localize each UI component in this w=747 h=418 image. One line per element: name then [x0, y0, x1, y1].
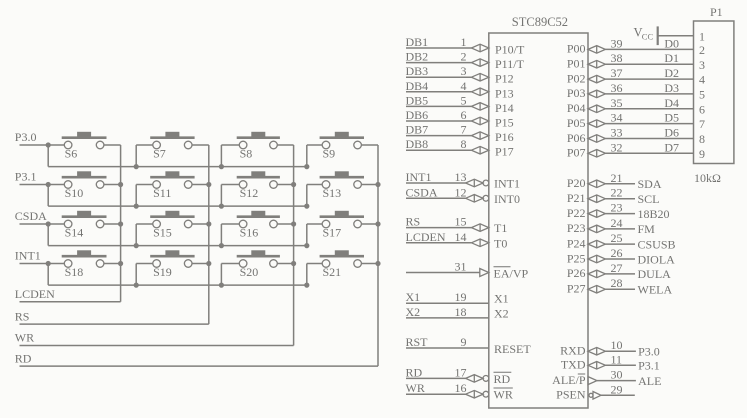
svg-text:3: 3	[699, 58, 705, 72]
svg-text:DB3: DB3	[406, 64, 429, 78]
svg-text:DULA: DULA	[638, 267, 672, 281]
svg-text:D1: D1	[664, 51, 679, 65]
IC pin 33 (P06) to D6	[567, 126, 694, 145]
wire row CSDA drop to bus	[47, 224, 49, 246]
svg-text:4: 4	[699, 73, 705, 87]
wire S14 to column	[104, 223, 121, 225]
junction column 4 row 2	[375, 182, 380, 187]
svg-text:X2: X2	[494, 306, 509, 320]
junction column 3 row 3	[291, 221, 296, 226]
svg-text:WR: WR	[15, 331, 34, 345]
svg-text:RESET: RESET	[494, 342, 531, 356]
IC pin 37 (P02) to D2	[567, 66, 694, 85]
svg-text:21: 21	[611, 171, 623, 185]
svg-text:CSDA: CSDA	[15, 209, 47, 223]
junction bus riser S19	[134, 283, 139, 288]
svg-text:LCDEN: LCDEN	[406, 230, 446, 244]
svg-text:T0: T0	[494, 236, 507, 250]
svg-text:6: 6	[699, 102, 705, 116]
svg-text:P15: P15	[495, 116, 514, 130]
IC pin 18 (X2) left	[406, 305, 509, 321]
wire row P3.1 lead-in	[20, 184, 65, 186]
node P3.0 row label	[15, 130, 37, 144]
IC pin 16 (WR) left	[406, 381, 513, 401]
svg-text:RXD: RXD	[560, 344, 586, 358]
wire S20 to column	[277, 263, 293, 265]
wire column 3 vertical	[293, 145, 295, 346]
wire S7 to column	[192, 144, 209, 146]
svg-text:P03: P03	[567, 86, 586, 100]
svg-text:INT0: INT0	[494, 192, 520, 206]
svg-text:31: 31	[455, 260, 467, 274]
svg-text:P20: P20	[567, 176, 586, 190]
svg-text:DB1: DB1	[406, 35, 429, 49]
svg-text:P16: P16	[495, 130, 514, 144]
wire riser to S8	[221, 145, 239, 167]
wire row CSDA lead-in	[20, 223, 65, 225]
junction bus riser S8	[219, 164, 224, 169]
IC pin 30 (ALE/P) net ALE	[552, 368, 661, 388]
svg-text:LCDEN: LCDEN	[15, 287, 55, 301]
wire row P3.1 bus	[48, 205, 307, 207]
svg-text:P21: P21	[567, 191, 586, 205]
svg-text:11: 11	[611, 352, 623, 366]
wire S16 to column	[277, 223, 293, 225]
svg-text:P05: P05	[567, 116, 586, 130]
IC pin 24 (P23) net FM	[567, 216, 655, 236]
wire row P3.0 drop to bus	[47, 145, 49, 167]
junction column 1 row 2	[118, 182, 123, 187]
node P3.1 row label	[15, 170, 37, 184]
wire riser to S12	[221, 185, 239, 207]
switch S17	[320, 211, 364, 240]
svg-text:10: 10	[611, 338, 623, 352]
svg-text:S10: S10	[65, 186, 84, 200]
IC pin 25 (P24) net CSUSB	[567, 231, 676, 251]
svg-text:RD: RD	[406, 365, 423, 379]
junction column 3 row 2	[291, 182, 296, 187]
wire RD net	[20, 365, 379, 367]
junction bus riser S7	[134, 164, 139, 169]
svg-text:STC89C52: STC89C52	[512, 15, 568, 29]
wire RS net	[20, 323, 209, 325]
wire riser to S13	[307, 185, 322, 207]
svg-text:S7: S7	[153, 146, 166, 160]
svg-text:P26: P26	[567, 266, 586, 280]
junction bus riser S13	[304, 204, 309, 209]
IC pin 5 (P14) left	[406, 93, 514, 115]
svg-text:18B20: 18B20	[638, 207, 670, 221]
IC pin 34 (P05) to D5	[567, 111, 694, 130]
svg-text:3: 3	[461, 64, 467, 78]
svg-text:16: 16	[455, 381, 467, 395]
wire row INT1 bus	[48, 284, 307, 286]
svg-text:RS: RS	[15, 309, 30, 323]
svg-text:WR: WR	[406, 381, 425, 395]
svg-text:29: 29	[611, 382, 623, 396]
svg-text:P3.1: P3.1	[15, 170, 37, 184]
svg-text:6: 6	[461, 108, 467, 122]
wire S11 to column	[192, 184, 209, 186]
svg-text:34: 34	[611, 111, 623, 125]
svg-text:8: 8	[699, 132, 705, 146]
svg-text:CSDA: CSDA	[406, 185, 438, 199]
svg-text:S12: S12	[240, 186, 259, 200]
svg-text:RD: RD	[494, 372, 511, 386]
svg-text:ALE: ALE	[638, 374, 661, 388]
svg-text:P04: P04	[567, 101, 586, 115]
wire S19 to column	[192, 263, 209, 265]
node WR label	[15, 331, 34, 345]
switch S13	[320, 171, 364, 200]
wire S13 to column	[361, 184, 378, 186]
IC pin 6 (P15) left	[406, 108, 514, 130]
wire row INT1 drop to bus	[47, 264, 49, 286]
switch S21	[320, 250, 364, 278]
svg-text:36: 36	[611, 81, 623, 95]
switch S19	[150, 250, 194, 278]
svg-text:P06: P06	[567, 131, 586, 145]
svg-text:P10/T: P10/T	[495, 43, 525, 57]
svg-text:DB5: DB5	[406, 93, 429, 107]
junction row INT1 left	[46, 261, 51, 266]
svg-text:18: 18	[455, 305, 467, 319]
wire S12 to column	[277, 184, 293, 186]
junction bus riser S21	[304, 283, 309, 288]
node RS label	[15, 309, 30, 323]
svg-text:35: 35	[611, 96, 623, 110]
power VCC	[634, 26, 694, 46]
svg-text:27: 27	[611, 261, 623, 275]
svg-text:RD: RD	[15, 351, 32, 365]
IC pin 11 (TXD) net P3.1	[561, 352, 660, 372]
svg-text:S15: S15	[153, 225, 172, 239]
svg-text:13: 13	[455, 170, 467, 184]
svg-text:D3: D3	[664, 81, 679, 95]
wire riser to S19	[136, 264, 153, 286]
svg-text:S13: S13	[323, 186, 342, 200]
svg-text:7: 7	[699, 117, 705, 131]
wire S18 to column	[104, 263, 121, 265]
svg-text:37: 37	[611, 66, 623, 80]
svg-text:S6: S6	[65, 146, 78, 160]
wire riser to S7	[136, 145, 153, 167]
svg-text:FM: FM	[638, 222, 656, 236]
junction column 4 row 4	[375, 261, 380, 266]
wire WR net	[20, 345, 294, 347]
svg-text:D0: D0	[664, 36, 679, 50]
svg-text:D4: D4	[664, 96, 679, 110]
IC pin 21 (P20) net SDA	[567, 171, 662, 191]
svg-text:P25: P25	[567, 251, 586, 265]
svg-text:P14: P14	[495, 101, 514, 115]
svg-text:DB4: DB4	[406, 79, 429, 93]
svg-text:S11: S11	[153, 186, 171, 200]
junction column 2 row 4	[206, 261, 211, 266]
wire row P3.0 bus	[48, 166, 307, 168]
wire riser to S21	[307, 264, 322, 286]
junction column 2 row 2	[206, 182, 211, 187]
switch S12	[237, 171, 280, 200]
wire S9 to column	[361, 144, 378, 146]
svg-text:23: 23	[611, 201, 623, 215]
svg-text:S20: S20	[240, 265, 259, 279]
wire S17 to column	[361, 223, 378, 225]
svg-text:X1: X1	[494, 292, 509, 306]
junction row P3.0 left	[46, 142, 51, 147]
IC pin 13 (INT1) left	[406, 170, 521, 191]
wire column 4 vertical	[377, 145, 379, 366]
svg-text:33: 33	[611, 126, 623, 140]
wire row INT1 lead-in	[20, 263, 65, 265]
svg-text:DB2: DB2	[406, 50, 429, 64]
IC pin 36 (P03) to D3	[567, 81, 694, 100]
IC pin 26 (P25) net DIOLA	[567, 246, 675, 266]
svg-text:24: 24	[611, 216, 623, 230]
junction bus riser S16	[219, 243, 224, 248]
svg-text:D2: D2	[664, 66, 679, 80]
svg-text:DB6: DB6	[406, 108, 429, 122]
switch S18	[62, 250, 107, 278]
junction bus riser S11	[134, 204, 139, 209]
svg-text:14: 14	[455, 230, 467, 244]
svg-text:P01: P01	[567, 57, 586, 71]
IC pin 17 (RD) left	[406, 365, 512, 385]
wire row P3.1 drop to bus	[47, 185, 49, 207]
svg-text:9: 9	[699, 147, 705, 161]
svg-text:P11/T: P11/T	[495, 57, 525, 71]
svg-text:39: 39	[611, 36, 623, 50]
svg-text:S18: S18	[65, 265, 84, 279]
svg-text:1: 1	[699, 29, 705, 43]
junction bus riser S15	[134, 243, 139, 248]
svg-text:30: 30	[611, 368, 623, 382]
svg-text:32: 32	[611, 140, 623, 154]
svg-text:P24: P24	[567, 236, 586, 250]
svg-text:38: 38	[611, 51, 623, 65]
svg-text:P3.0: P3.0	[15, 130, 37, 144]
node LCDEN label	[15, 287, 55, 301]
svg-text:WELA: WELA	[638, 283, 673, 297]
resistor network P1 body	[694, 5, 734, 185]
junction column 1 row 4	[118, 261, 123, 266]
wire riser to S17	[307, 224, 322, 246]
node RD label	[15, 351, 32, 365]
IC pin 35 (P04) to D4	[567, 96, 694, 115]
wire S15 to column	[192, 223, 209, 225]
svg-text:12: 12	[455, 185, 467, 199]
svg-text:17: 17	[455, 365, 467, 379]
svg-text:WR: WR	[494, 388, 513, 402]
svg-text:S21: S21	[323, 265, 342, 279]
junction column 3 row 4	[291, 261, 296, 266]
svg-text:P23: P23	[567, 221, 586, 235]
IC pin 4 (P13) left	[406, 79, 514, 101]
P1 pin numbers	[699, 29, 705, 161]
svg-text:DB7: DB7	[406, 123, 429, 137]
IC pin 8 (P17) left	[406, 137, 514, 159]
svg-text:D6: D6	[664, 126, 679, 140]
IC U1 STC89C52 body	[489, 15, 588, 408]
svg-text:P17: P17	[495, 145, 514, 159]
junction bus riser S9	[304, 164, 309, 169]
svg-text:RS: RS	[406, 215, 421, 229]
switch S15	[150, 211, 194, 240]
svg-text:P27: P27	[567, 282, 586, 296]
svg-text:2: 2	[699, 43, 705, 57]
IC pin 10 (RXD) net P3.0	[560, 338, 660, 358]
IC pin 28 (P27) net WELA	[567, 276, 673, 296]
junction bus riser S12	[219, 204, 224, 209]
IC pin 19 (X1) left	[406, 290, 509, 306]
svg-text:P02: P02	[567, 71, 586, 85]
switch S7	[150, 132, 194, 161]
svg-text:SCL: SCL	[638, 192, 660, 206]
svg-text:P1: P1	[710, 5, 723, 19]
IC pin 22 (P21) net SCL	[567, 186, 660, 206]
junction row P3.1 left	[46, 182, 51, 187]
svg-text:X1: X1	[406, 290, 421, 304]
svg-text:P07: P07	[567, 146, 586, 160]
svg-text:D7: D7	[664, 140, 679, 154]
svg-text:D5: D5	[664, 111, 679, 125]
svg-text:S16: S16	[240, 225, 259, 239]
svg-text:P22: P22	[567, 206, 586, 220]
svg-text:DIOLA: DIOLA	[638, 252, 676, 266]
svg-text:ALE/P: ALE/P	[552, 373, 586, 387]
junction column 1 row 3	[118, 221, 123, 226]
svg-text:INT1: INT1	[15, 249, 41, 263]
wire riser to S20	[221, 264, 239, 286]
svg-text:5: 5	[461, 93, 467, 107]
switch S20	[237, 250, 280, 278]
IC pin 39 (P00) to D0	[567, 36, 694, 55]
switch S6	[62, 132, 107, 161]
IC pin 2 (P11/T) left	[406, 50, 525, 72]
svg-text:T1: T1	[494, 221, 507, 235]
svg-text:7: 7	[461, 123, 467, 137]
IC pin 31 (EAVP) left	[406, 260, 528, 281]
svg-text:CC: CC	[642, 31, 654, 41]
IC pin 14 (T0) left	[406, 230, 508, 251]
IC pin 9 (RESET) left	[406, 335, 532, 356]
wire S6 to column	[104, 144, 121, 146]
wire riser to S11	[136, 185, 153, 207]
IC pin 12 (INT0) left	[406, 185, 521, 206]
IC pin 7 (P16) left	[406, 123, 514, 145]
junction column 4 row 3	[375, 221, 380, 226]
svg-text:P3.0: P3.0	[638, 345, 660, 359]
svg-text:INT1: INT1	[494, 177, 520, 191]
switch S11	[150, 171, 194, 200]
IC pin 15 (T1) left	[406, 215, 508, 236]
svg-text:DB8: DB8	[406, 137, 429, 151]
svg-text:EA/VP: EA/VP	[494, 267, 529, 281]
wire riser to S15	[136, 224, 153, 246]
IC pin 38 (P01) to D1	[567, 51, 694, 70]
svg-text:9: 9	[461, 335, 467, 349]
wire row P3.0 lead-in	[20, 144, 65, 146]
svg-text:S14: S14	[65, 225, 84, 239]
IC pin 29 (PSEN)	[556, 382, 635, 401]
wire column 2 vertical	[208, 145, 210, 324]
wire S8 to column	[277, 144, 293, 146]
IC pin 32 (P07) to D7	[567, 140, 694, 159]
switch S16	[237, 211, 280, 240]
switch S8	[237, 132, 280, 161]
svg-text:4: 4	[461, 79, 467, 93]
svg-text:TXD: TXD	[561, 358, 586, 372]
svg-text:S17: S17	[323, 225, 342, 239]
svg-text:RST: RST	[406, 335, 429, 349]
wire S10 to column	[104, 184, 121, 186]
svg-text:X2: X2	[406, 305, 421, 319]
wire riser to S9	[307, 145, 322, 167]
svg-text:28: 28	[611, 276, 623, 290]
svg-text:S9: S9	[323, 146, 336, 160]
svg-text:PSEN: PSEN	[556, 388, 586, 402]
svg-text:P3.1: P3.1	[638, 359, 660, 373]
svg-text:P12: P12	[495, 72, 514, 86]
svg-text:P00: P00	[567, 42, 586, 56]
junction row CSDA left	[46, 221, 51, 226]
IC pin 3 (P12) left	[406, 64, 514, 86]
IC pin 23 (P22) net 18B20	[567, 201, 670, 221]
junction bus riser S20	[219, 283, 224, 288]
svg-text:S19: S19	[153, 265, 172, 279]
IC pin 27 (P26) net DULA	[567, 261, 671, 281]
node INT1 row label	[15, 249, 41, 263]
wire column 1 vertical	[120, 145, 122, 302]
wire row CSDA bus	[48, 245, 307, 247]
svg-text:15: 15	[455, 215, 467, 229]
svg-text:2: 2	[461, 50, 467, 64]
wire S21 to column	[361, 263, 378, 265]
svg-text:CSUSB: CSUSB	[638, 237, 676, 251]
svg-text:S8: S8	[240, 146, 253, 160]
svg-text:8: 8	[461, 137, 467, 151]
switch S14	[62, 211, 107, 240]
svg-text:25: 25	[611, 231, 623, 245]
junction bus riser S17	[304, 243, 309, 248]
switch S10	[62, 171, 107, 200]
svg-text:10kΩ: 10kΩ	[694, 171, 721, 185]
svg-text:5: 5	[699, 88, 705, 102]
node CSDA row label	[15, 209, 47, 223]
svg-text:26: 26	[611, 246, 623, 260]
wire LCDEN net	[20, 301, 121, 303]
svg-text:1: 1	[461, 35, 467, 49]
svg-text:P13: P13	[495, 86, 514, 100]
svg-text:SDA: SDA	[638, 177, 662, 191]
junction column 2 row 3	[206, 221, 211, 226]
svg-text:INT1: INT1	[406, 170, 432, 184]
switch S9	[320, 132, 364, 161]
svg-text:19: 19	[455, 290, 467, 304]
svg-text:22: 22	[611, 186, 623, 200]
wire riser to S16	[221, 224, 239, 246]
IC pin 1 (P10/T) left	[406, 35, 526, 57]
